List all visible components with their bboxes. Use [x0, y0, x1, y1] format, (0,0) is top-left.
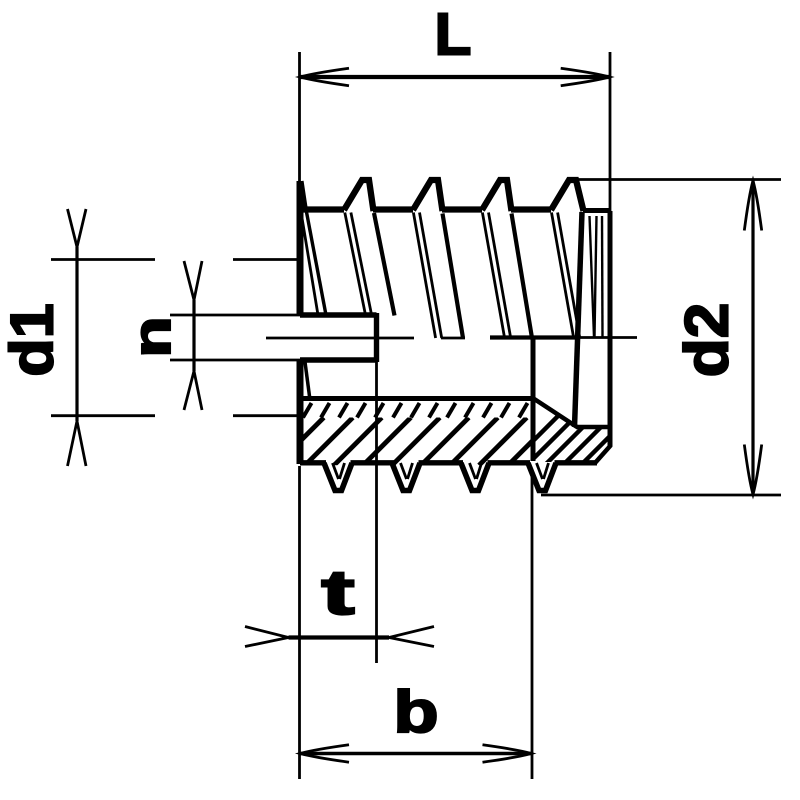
bottom tooth 4 [528, 463, 556, 491]
collar top edge [583, 208, 609, 213]
dimension b arrow left [300, 745, 349, 762]
dimension n extension bottom (slot bottom extended) [170, 359, 300, 362]
part centerline [266, 337, 414, 340]
thread helix thin lines group2 [413, 213, 435, 339]
dimension d1 arrow bottom [68, 421, 87, 466]
dimension n arrow bottom [184, 371, 202, 410]
dimension b extension right [531, 474, 534, 779]
dimension d2 extension bottom [541, 494, 781, 497]
svg-text:d1: d1 [0, 303, 65, 376]
svg-text:L: L [435, 1, 472, 67]
dimension t arrow right [389, 627, 434, 647]
countersink edge [576, 425, 609, 430]
hatch diagonals right band [510, 397, 685, 464]
dimension b line [300, 752, 533, 756]
dimension d2 arrow bottom [744, 445, 761, 495]
bottom tooth 2 [392, 463, 420, 491]
svg-text:t: t [321, 558, 354, 628]
bore shoulder edge [490, 335, 578, 339]
thread helix thick lines [374, 213, 395, 316]
dimension n label [122, 316, 181, 357]
dimension t label [321, 558, 354, 628]
dimension b arrow right [483, 745, 532, 762]
dimension L extension line right [609, 52, 612, 211]
dimension d2 label [673, 303, 742, 378]
dimension d2 arrow top [744, 181, 761, 231]
dimension b label [393, 679, 438, 745]
dimension d2 extension top [576, 178, 781, 181]
right bottom chamfer [595, 445, 611, 463]
top tooth 3 [482, 180, 512, 211]
countersink cone [532, 398, 577, 428]
thread runout lines on collar [590, 216, 595, 337]
dimension d1 arrow top [68, 209, 87, 247]
bottom tooth 1 [324, 463, 352, 491]
dimension L arrow right [561, 68, 610, 85]
screwdriver slot end wall [374, 313, 379, 362]
internal thread serrations [303, 403, 528, 418]
bore corner vertical at countersink [531, 339, 536, 461]
hatch diagonals main band [276, 418, 585, 466]
thread helix thin lines group4 [552, 213, 574, 339]
dimension n extension top (slot top extended) [170, 314, 300, 317]
svg-text:b: b [393, 679, 438, 745]
dimension d1 extension bottom [51, 414, 155, 417]
thread helix thin lines group3 [482, 213, 504, 339]
dimension d2 line [751, 180, 754, 495]
dimension L line [300, 75, 611, 79]
thread helix thin lines group1 [345, 213, 366, 316]
dimension d1 extension top [51, 258, 155, 261]
dimension n line [192, 300, 195, 371]
dimension t arrow left [245, 627, 289, 647]
collar boundary line [575, 212, 583, 427]
thread root plateau top [302, 206, 344, 212]
left face of insert [297, 181, 304, 315]
dimension L label [435, 1, 472, 67]
screwdriver slot bottom [300, 357, 377, 362]
hatch bottom border [300, 460, 326, 465]
screwdriver slot top [300, 312, 377, 317]
dimension t extension right [375, 362, 378, 663]
dimension t line [289, 635, 390, 639]
dimension L arrow left [300, 68, 349, 85]
bottom tooth 3 [461, 463, 489, 491]
dimension L extension line left [298, 52, 301, 181]
hatch top border (bore wall) [300, 396, 533, 401]
svg-text:n: n [122, 316, 181, 357]
dimension b / t extension left [298, 466, 301, 779]
svg-text:d2: d2 [673, 303, 742, 378]
top tooth 1 [344, 180, 374, 211]
corner tooth flank at face [302, 181, 307, 211]
helix line below slot [305, 362, 310, 400]
right face of insert [608, 211, 613, 446]
top tooth 4 [551, 180, 584, 211]
top tooth 2 [413, 180, 443, 211]
dimension n arrow top [184, 261, 202, 300]
dimension d1 label [0, 303, 65, 376]
dimension d1 line [75, 247, 78, 421]
